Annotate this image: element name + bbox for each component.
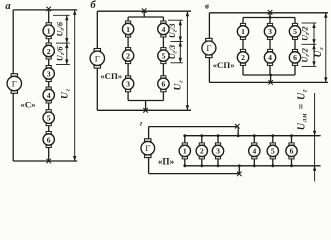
lamp 5 circuit g wiring xyxy=(272,136,274,166)
svg-text:3: 3 xyxy=(268,27,272,36)
circuit a wire bottom bus xyxy=(13,160,77,162)
circuit v wire bottom stub xyxy=(270,75,272,82)
svg-text:Uг/6: Uг/6 xyxy=(55,21,66,36)
circuit v plug contact top xyxy=(268,10,273,15)
circuit v label letter в xyxy=(205,1,209,11)
circuit g plug contact top xyxy=(235,124,240,129)
generator Г circuit a xyxy=(7,74,21,94)
circuit g junction top stub dot xyxy=(237,134,240,137)
svg-text:1: 1 xyxy=(47,27,51,36)
lamp 3 circuit a xyxy=(43,66,54,82)
svg-text:2: 2 xyxy=(47,47,51,56)
circuit a label Uг xyxy=(60,88,72,99)
lamp 5 circuit a xyxy=(43,110,54,126)
svg-text:г: г xyxy=(140,118,143,127)
lamp 2 circuit b xyxy=(122,48,133,64)
lamp 3 circuit g wiring xyxy=(217,136,219,166)
lamp 2 circuit a xyxy=(43,43,54,59)
circuit g wire top feeder xyxy=(149,126,238,128)
circuit a wire top bus xyxy=(13,9,77,11)
svg-text:Г: Г xyxy=(206,43,211,53)
lamp 6 circuit b xyxy=(158,76,169,92)
lamp 1 circuit v xyxy=(237,23,248,39)
circuit g wire lamp bottom bus xyxy=(185,165,321,167)
circuit b label «СП» xyxy=(100,71,122,81)
circuit b wire bottom bus xyxy=(97,109,191,111)
svg-text:Uлм = Uг: Uлм = Uг xyxy=(297,89,309,130)
svg-text:5: 5 xyxy=(161,51,165,60)
svg-text:в: в xyxy=(205,1,209,11)
circuit v junction top middle xyxy=(269,16,272,19)
lamp 2 circuit g junction top xyxy=(200,134,203,137)
circuit g label «П» xyxy=(158,156,175,166)
circuit g dimension line Uлм xyxy=(313,93,316,182)
svg-text:4: 4 xyxy=(161,25,165,34)
svg-text:Uг/3: Uг/3 xyxy=(168,24,179,39)
circuit b wire right branch xyxy=(162,17,164,101)
lamp 4 circuit v xyxy=(264,49,275,65)
lamp 4 circuit g junction bottom xyxy=(253,164,256,167)
circuit b wire left side xyxy=(96,11,98,110)
lamp 3 circuit g junction top xyxy=(217,134,220,137)
lamp 3 circuit g junction bottom xyxy=(217,164,220,167)
circuit b wire bottom stub xyxy=(145,101,147,111)
circuit b label Uг/3 upper xyxy=(168,24,179,39)
circuit v label Uг/2 lower xyxy=(301,48,312,63)
lamp 4 circuit g xyxy=(249,143,260,159)
circuit v wire column 3 xyxy=(294,18,296,76)
circuit v wire left side xyxy=(208,13,210,83)
lamp 6 circuit g junction top xyxy=(290,134,293,137)
circuit v label «СП» xyxy=(213,60,235,70)
svg-text:4: 4 xyxy=(47,91,51,100)
circuit b label Uг xyxy=(173,80,185,91)
circuit v wire branch top bus xyxy=(243,17,295,19)
lamp 5 circuit g junction top xyxy=(271,134,274,137)
svg-text:2: 2 xyxy=(126,51,130,60)
circuit v wire branch bottom bus xyxy=(243,74,295,76)
circuit b plug contact top xyxy=(142,8,147,13)
circuit v dimension ticks Uг/2 xyxy=(302,23,317,66)
lamp 6 circuit a xyxy=(43,132,54,148)
circuit v label Uг/2 upper xyxy=(301,26,312,41)
lamp 5 circuit g junction bottom xyxy=(271,164,274,167)
svg-text:Uг/2: Uг/2 xyxy=(301,48,312,63)
circuit b wire top bus xyxy=(97,10,191,12)
svg-text:2: 2 xyxy=(241,53,245,62)
svg-text:1: 1 xyxy=(241,27,245,36)
circuit a dimension arrow Uг/6 lower xyxy=(65,43,68,64)
svg-text:«СП»: «СП» xyxy=(100,71,122,81)
lamp 3 circuit b xyxy=(122,76,133,92)
lamp 2 circuit v xyxy=(237,49,248,65)
svg-text:3: 3 xyxy=(47,69,51,78)
svg-text:Г: Г xyxy=(12,79,17,89)
circuit b dimension arrow Uг xyxy=(186,11,189,110)
lamp 3 circuit v xyxy=(264,23,275,39)
lamp 6 circuit g wiring xyxy=(291,136,293,166)
lamp 6 circuit g junction bottom xyxy=(290,164,293,167)
circuit v wire column 2 xyxy=(269,18,271,76)
circuit b dimension ticks Uг/3 xyxy=(168,20,183,63)
svg-text:6: 6 xyxy=(161,80,165,89)
svg-text:Uг/6: Uг/6 xyxy=(55,46,66,61)
circuit v dimension arrow Uг xyxy=(324,13,327,83)
circuit b label letter б xyxy=(90,0,96,11)
circuit a dimension arrow Uг xyxy=(73,10,76,161)
lamp 1 circuit g wiring xyxy=(184,136,186,166)
lamp 5 circuit b xyxy=(158,48,169,64)
circuit a plug contact bottom xyxy=(46,159,51,164)
circuit g label Uлм = Uг xyxy=(297,89,309,130)
svg-text:4: 4 xyxy=(268,53,272,62)
circuit v wire top bus xyxy=(209,12,328,14)
svg-text:б: б xyxy=(90,0,96,11)
svg-text:6: 6 xyxy=(290,147,294,156)
circuit v wire top stub xyxy=(269,13,271,18)
circuit g wire bottom feeder xyxy=(149,173,240,175)
circuit a wire left side xyxy=(12,10,14,161)
circuit v label Uг xyxy=(313,47,325,58)
circuit g wire left side xyxy=(148,127,150,174)
circuit v dimension arrow Uг/2 upper xyxy=(312,23,315,44)
lamp 5 circuit v xyxy=(289,23,300,39)
circuit v dimension arrow Uг/2 lower xyxy=(312,44,315,66)
circuit a label «С» xyxy=(20,100,35,110)
circuit g junction bottom stub dot xyxy=(238,164,241,167)
generator Г circuit b xyxy=(90,49,104,69)
lamp 5 circuit g xyxy=(267,143,278,159)
svg-text:«СП»: «СП» xyxy=(213,60,235,70)
lamp 4 circuit a xyxy=(43,87,54,103)
lamp 2 circuit g xyxy=(196,143,207,159)
svg-text:1: 1 xyxy=(126,25,130,34)
svg-text:«С»: «С» xyxy=(20,100,35,110)
circuit a label Uг/6 lower xyxy=(55,46,66,61)
circuit g plug contact bottom xyxy=(237,172,242,177)
svg-text:5: 5 xyxy=(271,147,275,156)
circuit b wire branch top xyxy=(128,16,163,18)
svg-text:1: 1 xyxy=(183,147,187,156)
circuit g wire bottom stub xyxy=(238,166,240,174)
svg-text:«П»: «П» xyxy=(158,156,175,166)
svg-text:Uг/3: Uг/3 xyxy=(168,45,179,60)
circuit b plug contact bottom xyxy=(143,108,148,113)
circuit g wire lamp top bus xyxy=(185,135,321,137)
circuit b wire left branch xyxy=(127,17,129,92)
lamp 4 circuit g junction top xyxy=(253,134,256,137)
lamp 1 circuit a xyxy=(43,23,54,39)
lamp 1 circuit b xyxy=(122,21,133,37)
lamp 2 circuit g wiring xyxy=(201,136,203,166)
lamp 1 circuit g junction bottom xyxy=(183,164,186,167)
svg-text:Г: Г xyxy=(145,143,150,153)
svg-text:3: 3 xyxy=(216,147,220,156)
lamp 6 circuit v xyxy=(289,49,300,65)
svg-text:2: 2 xyxy=(200,147,204,156)
generator Г circuit g xyxy=(141,139,155,158)
lamp 1 circuit g xyxy=(179,143,190,159)
circuit a wire lamp chain xyxy=(48,10,50,161)
lamp 6 circuit g xyxy=(286,143,297,159)
svg-text:4: 4 xyxy=(252,147,256,156)
svg-text:5: 5 xyxy=(47,114,51,123)
svg-text:Uг/2: Uг/2 xyxy=(301,26,312,41)
circuit b wire top stub xyxy=(143,11,145,17)
lamp 4 circuit g wiring xyxy=(253,136,255,166)
circuit v wire column 1 xyxy=(242,18,244,76)
circuit v junction bottom middle xyxy=(269,74,272,77)
lamp 4 circuit b xyxy=(158,21,169,37)
circuit a label letter а xyxy=(5,1,10,12)
circuit g wire top stub xyxy=(237,127,239,136)
circuit v wire bottom bus xyxy=(209,81,328,83)
circuit b dimension arrow Uг/3 lower xyxy=(179,42,182,63)
svg-text:а: а xyxy=(5,1,10,12)
circuit a dimension ticks Uг/6 xyxy=(53,15,70,64)
circuit g label letter г xyxy=(140,118,143,127)
circuit a plug contact top xyxy=(46,7,51,12)
svg-text:6: 6 xyxy=(47,135,51,144)
circuit b label Uг/3 lower xyxy=(168,45,179,60)
lamp 3 circuit g xyxy=(212,143,223,159)
circuit a label Uг/6 upper xyxy=(55,21,66,36)
generator Г circuit v xyxy=(202,38,216,57)
svg-text:6: 6 xyxy=(293,53,297,62)
lamp 2 circuit g junction bottom xyxy=(200,164,203,167)
circuit a dimension arrow Uг/6 upper xyxy=(65,15,68,43)
lamp 1 circuit g junction top xyxy=(183,134,186,137)
svg-text:Г: Г xyxy=(95,53,100,63)
circuit v plug contact bottom xyxy=(268,80,273,85)
circuit b wire branch bottom xyxy=(128,92,163,101)
circuit b dimension arrow Uг/3 upper xyxy=(179,20,182,41)
svg-text:5: 5 xyxy=(293,27,297,36)
svg-text:3: 3 xyxy=(126,80,130,89)
